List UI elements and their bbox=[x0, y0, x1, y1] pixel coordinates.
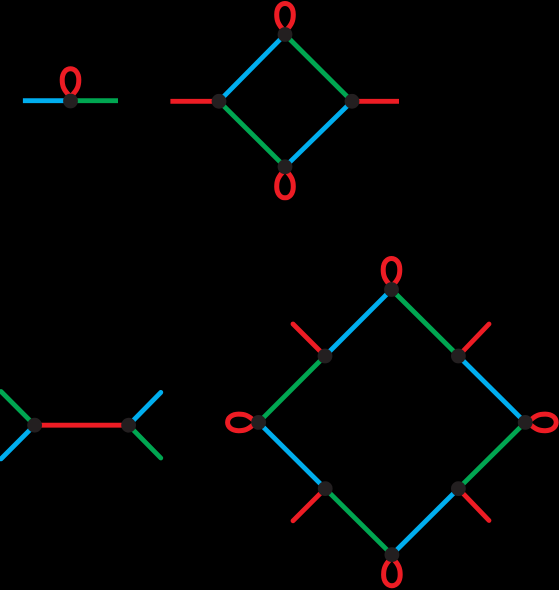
node D-NW bbox=[318, 349, 333, 364]
edge green b BL bbox=[219, 101, 285, 167]
node B-left bbox=[212, 94, 227, 109]
node D-N bbox=[384, 282, 399, 297]
wire red b left stub bbox=[170, 99, 219, 104]
wire red d NW stub bbox=[293, 324, 325, 356]
wire green c L-up bbox=[1, 392, 35, 426]
loop red b bottom bbox=[277, 171, 294, 198]
edge blue b TL bbox=[219, 35, 285, 102]
wire blue c L-down bbox=[1, 425, 35, 459]
wire red b right stub bbox=[352, 99, 399, 104]
edge green d NE-N bbox=[392, 290, 459, 357]
node B-bottom bbox=[278, 159, 293, 174]
edge green d SE-E bbox=[458, 422, 525, 488]
edge blue d N-NW bbox=[325, 290, 392, 357]
loop red d W bbox=[228, 414, 255, 431]
edge green b TR bbox=[285, 35, 352, 102]
wire green c R-down bbox=[129, 425, 161, 458]
edge blue d S-SE bbox=[392, 489, 459, 555]
node B-top bbox=[278, 27, 293, 42]
loop red d N bbox=[383, 259, 400, 286]
node D-SE bbox=[451, 481, 466, 496]
wire blue c R-up bbox=[129, 392, 161, 425]
edge green d SW-S bbox=[325, 489, 392, 555]
wire green a2 bbox=[71, 98, 119, 103]
loop red d S bbox=[384, 559, 401, 586]
wire red d SW stub bbox=[293, 489, 325, 521]
edge red c bbox=[35, 423, 129, 428]
node D-W bbox=[251, 415, 266, 430]
node A bbox=[63, 94, 78, 109]
edge blue d E-NE bbox=[458, 356, 525, 422]
node D-S bbox=[385, 547, 400, 562]
node D-NE bbox=[451, 349, 466, 364]
node B-right bbox=[345, 94, 360, 109]
wire red d SE stub bbox=[458, 489, 489, 521]
node D-E bbox=[518, 415, 533, 430]
node C-right bbox=[121, 418, 136, 433]
loop red b top bbox=[277, 4, 294, 31]
edge blue b BR bbox=[285, 101, 352, 167]
node D-SW bbox=[318, 481, 333, 496]
loop red d E bbox=[529, 414, 556, 431]
wire blue a1 bbox=[23, 98, 71, 103]
wire red d NE stub bbox=[458, 324, 489, 356]
edge blue d W-SW bbox=[259, 422, 326, 488]
edge green d NW-W bbox=[259, 356, 325, 422]
loop red a bbox=[62, 69, 79, 96]
node C-left bbox=[27, 418, 42, 433]
